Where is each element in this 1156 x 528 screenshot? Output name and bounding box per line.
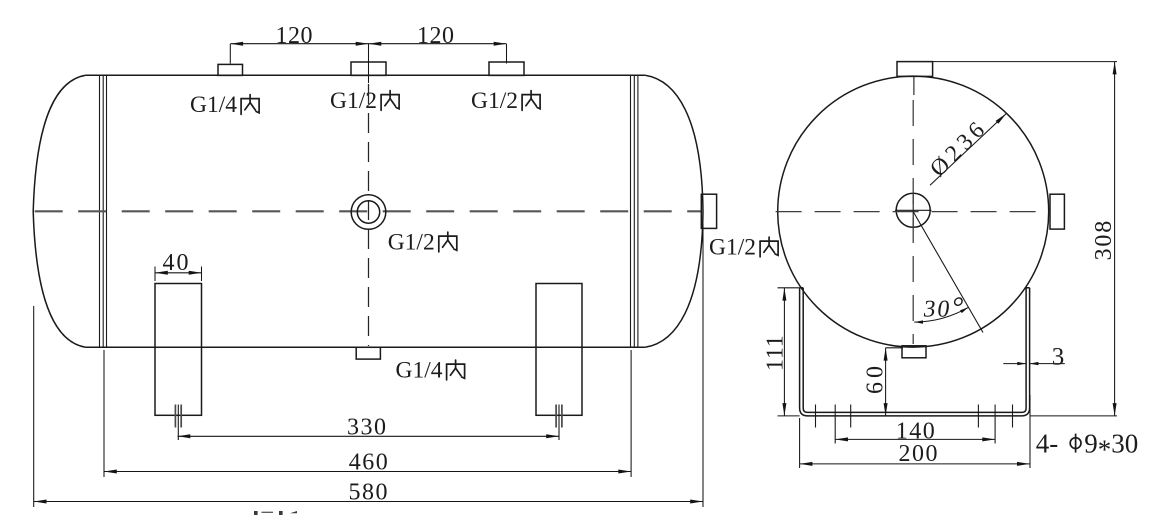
svg-text:580: 580 <box>349 480 390 506</box>
svg-text:120: 120 <box>276 23 314 49</box>
svg-text:G1/2: G1/2 <box>709 235 756 261</box>
svg-text:308: 308 <box>1091 219 1117 260</box>
svg-text:G1/2: G1/2 <box>471 88 518 114</box>
svg-text:30°: 30° <box>922 292 966 324</box>
svg-text:Ø236: Ø236 <box>925 114 993 182</box>
svg-text:200: 200 <box>898 441 939 467</box>
svg-text:60: 60 <box>863 362 889 394</box>
svg-text:40: 40 <box>163 250 191 276</box>
svg-text:330: 330 <box>347 415 388 441</box>
svg-text:111: 111 <box>763 334 789 371</box>
svg-text:120: 120 <box>417 23 455 49</box>
svg-text:G1/2: G1/2 <box>330 88 377 114</box>
svg-text:3: 3 <box>1052 344 1065 371</box>
svg-text:9*30: 9*30 <box>1084 428 1138 464</box>
svg-text:4-: 4- <box>1036 428 1059 458</box>
svg-text:G1/2: G1/2 <box>388 230 435 256</box>
svg-text:G1/4: G1/4 <box>396 358 443 384</box>
svg-text:460: 460 <box>349 450 390 476</box>
svg-text:G1/4: G1/4 <box>190 92 237 118</box>
